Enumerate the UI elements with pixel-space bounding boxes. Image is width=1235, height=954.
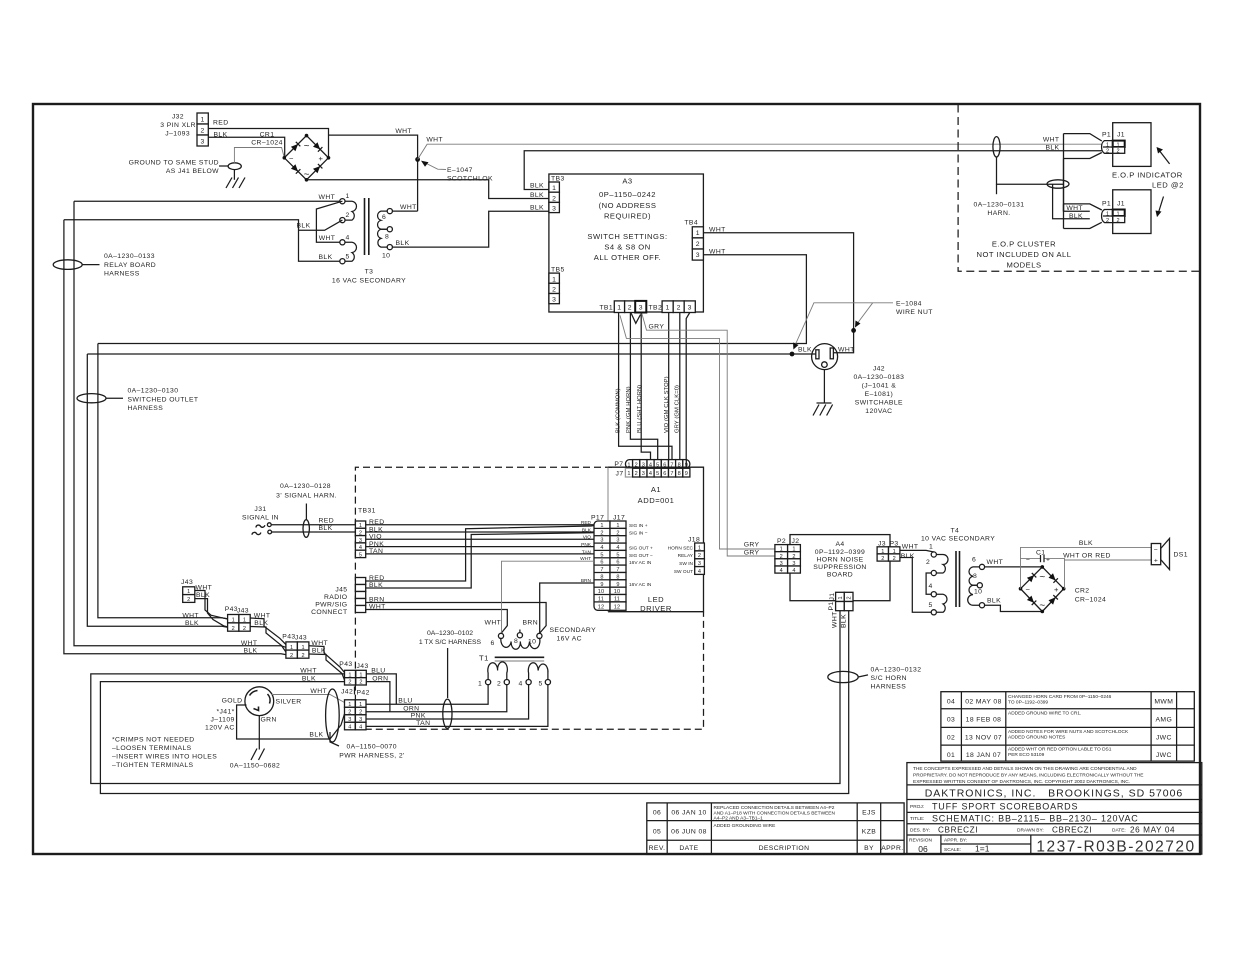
svg-text:2: 2: [359, 710, 362, 716]
svg-text:5: 5: [656, 471, 659, 477]
svg-text:8: 8: [385, 234, 389, 241]
svg-text:RED: RED: [213, 120, 229, 127]
svg-text:ADDED WHT OR RED OPTION LABLE: ADDED WHT OR RED OPTION LABLE TO DS1: [1008, 746, 1112, 752]
connector P1/J1 lower: [1102, 201, 1125, 224]
signal harness oval + label: [276, 483, 337, 537]
wire J41 GRN to splice: [258, 716, 260, 750]
svg-text:1: 1: [187, 589, 190, 595]
svg-text:1: 1: [359, 523, 362, 529]
svg-text:TB2: TB2: [649, 305, 663, 312]
svg-text:9: 9: [600, 582, 603, 588]
svg-text:4: 4: [346, 235, 350, 242]
wire TB31-2 BLK to P17-2: [366, 531, 594, 533]
svg-text:1: 1: [881, 549, 884, 555]
svg-text:1: 1: [838, 596, 844, 599]
left bus vertical BLK (switched outlet): [87, 354, 227, 627]
svg-text:120V AC: 120V AC: [205, 725, 235, 732]
svg-text:BLK: BLK: [841, 614, 848, 628]
svg-text:J42: J42: [341, 689, 353, 696]
terminal TB2: [649, 301, 696, 313]
svg-text:–LOOSEN TERMINALS: –LOOSEN TERMINALS: [112, 745, 192, 752]
connector J1/P1 bottom of A4: [828, 592, 853, 628]
svg-text:GRN: GRN: [261, 717, 277, 724]
connector P2/J2: [744, 538, 801, 574]
wire WHT to EOP (long gray): [418, 144, 1102, 159]
svg-text:E.O.P CLUSTER: E.O.P CLUSTER: [992, 240, 1056, 249]
svg-text:DATE: DATE: [679, 845, 698, 852]
svg-text:BLK: BLK: [185, 620, 199, 627]
svg-text:03: 03: [947, 717, 955, 724]
wire T3-2 tap: [299, 220, 343, 230]
svg-text:5: 5: [616, 552, 619, 558]
connector J45: [311, 575, 386, 616]
svg-text:4: 4: [616, 545, 619, 551]
svg-text:E–1047: E–1047: [447, 167, 473, 174]
svg-text:6: 6: [972, 557, 976, 564]
svg-text:A4: A4: [835, 541, 844, 548]
T4 primary windings: [936, 555, 948, 574]
svg-text:REVISION: REVISION: [909, 838, 932, 844]
EOP lower wires: [1053, 184, 1090, 218]
svg-text:1: 1: [617, 305, 621, 312]
svg-text:WHT: WHT: [300, 667, 317, 674]
wire J45-1 RED to P17-1: [366, 526, 594, 582]
EOP upper funnel: [1064, 134, 1102, 212]
svg-text:3: 3: [348, 717, 351, 723]
connector pair P43/J43 #3: [300, 661, 388, 686]
svg-text:BLK: BLK: [1045, 145, 1059, 152]
svg-text:CBRECZI: CBRECZI: [938, 826, 978, 835]
terminal TB5: [549, 267, 565, 304]
svg-text:2: 2: [616, 530, 619, 536]
svg-text:4: 4: [348, 725, 351, 731]
svg-text:8: 8: [616, 574, 619, 580]
board A4: [790, 535, 890, 601]
ground wire stud to CR1: [234, 148, 284, 163]
svg-text:12: 12: [598, 605, 604, 611]
terminal TB31: [355, 508, 384, 559]
svg-text:SWITCHED OUTLET: SWITCHED OUTLET: [128, 396, 199, 403]
svg-text:REV.: REV.: [649, 845, 666, 852]
svg-text:−: −: [1026, 585, 1031, 594]
svg-text:PNK: PNK: [411, 713, 426, 720]
svg-text:2: 2: [1117, 149, 1120, 155]
svg-text:GRY: GRY: [744, 542, 760, 549]
svg-text:BLU (SHT HORN): BLU (SHT HORN): [637, 385, 643, 433]
svg-text:GRY: GRY: [649, 324, 665, 331]
svg-text:3: 3: [688, 305, 692, 312]
svg-text:APPR.: APPR.: [881, 845, 903, 852]
svg-text:J32: J32: [172, 114, 184, 121]
svg-text:16V AC: 16V AC: [557, 636, 582, 643]
svg-text:SIG OUT −: SIG OUT −: [629, 553, 653, 559]
svg-text:11: 11: [598, 597, 604, 603]
svg-text:+: +: [1154, 558, 1158, 565]
svg-text:(J–1041 &: (J–1041 &: [862, 383, 897, 390]
svg-text:HORN NOISE: HORN NOISE: [816, 557, 863, 564]
svg-text:0A–1230–0128: 0A–1230–0128: [280, 483, 331, 490]
svg-text:6: 6: [600, 560, 603, 566]
svg-text:+: +: [319, 154, 324, 163]
svg-text:BLK: BLK: [1079, 540, 1093, 547]
svg-text:2: 2: [635, 471, 638, 477]
svg-text:WHT: WHT: [319, 194, 336, 201]
svg-text:HARNESS: HARNESS: [104, 271, 140, 278]
rotated wire color labels: [615, 376, 680, 433]
svg-text:WHT: WHT: [987, 559, 1004, 566]
wire bus WHT to T3-1: [74, 200, 340, 202]
left bus vertical WHT (T3): [74, 201, 286, 647]
svg-text:HARNESS: HARNESS: [128, 405, 164, 412]
svg-text:DES. BY:: DES. BY:: [910, 828, 930, 834]
T3 secondary terminals: [387, 209, 392, 214]
wire T1-2 ORN from P42-2: [366, 685, 507, 712]
svg-text:LED: LED: [648, 595, 664, 604]
T4 secondary terminals: [979, 564, 984, 569]
svg-text:WHT: WHT: [902, 544, 919, 551]
svg-text:2: 2: [497, 681, 501, 688]
svg-text:T4: T4: [951, 528, 960, 535]
svg-text:SIG OUT +: SIG OUT +: [629, 546, 653, 552]
terminal TB3: [530, 176, 565, 213]
connector J43 (single): [181, 579, 212, 603]
svg-text:9: 9: [685, 471, 688, 477]
svg-text:WHT: WHT: [400, 204, 417, 211]
svg-text:*CRIMPS NOT NEEDED: *CRIMPS NOT NEEDED: [112, 737, 195, 744]
wire TB31-3 VIO to P17-3: [366, 538, 594, 540]
svg-text:SCOTCHLOK: SCOTCHLOK: [447, 176, 493, 183]
svg-text:TB4: TB4: [684, 220, 698, 227]
label E-1047 SCOTCHLOK with arrow: [421, 161, 493, 183]
svg-text:1: 1: [616, 523, 619, 529]
svg-text:A4–P2 AND A3–TB1–1: A4–P2 AND A3–TB1–1: [714, 816, 764, 822]
svg-text:2: 2: [359, 531, 362, 537]
svg-text:AS J41 BELOW: AS J41 BELOW: [166, 168, 219, 175]
wire TB1-2 PNK (GM HORN) to P7-5: [630, 313, 657, 460]
svg-text:BLU: BLU: [371, 667, 385, 674]
wire P43#1 to P43#2 WHT: [250, 618, 286, 645]
svg-text:+: +: [1046, 557, 1050, 564]
wire J31 BLK to TB31-2: [272, 531, 356, 533]
svg-text:JWC: JWC: [1156, 735, 1172, 742]
wire P43#1 to P43#2 BLK: [250, 627, 286, 653]
svg-text:WHT: WHT: [182, 613, 199, 620]
svg-text:REPLACED CONNECTION DETAILS BE: REPLACED CONNECTION DETAILS BETWEEN A4–P…: [714, 805, 835, 811]
svg-text:CR–1024: CR–1024: [1075, 597, 1107, 604]
svg-text:06: 06: [918, 844, 928, 854]
svg-text:CR1: CR1: [260, 132, 275, 139]
svg-text:J43: J43: [295, 635, 307, 642]
svg-text:TITLE:: TITLE:: [910, 816, 924, 822]
svg-text:ADDED GROUND WIRE TO CR1.: ADDED GROUND WIRE TO CR1.: [1008, 711, 1081, 717]
svg-text:0A–1230–0132: 0A–1230–0132: [871, 667, 922, 674]
svg-text:*J41*: *J41*: [216, 709, 234, 716]
svg-text:18 FEB 08: 18 FEB 08: [966, 717, 1002, 724]
svg-text:2: 2: [893, 556, 896, 562]
svg-text:11: 11: [614, 597, 620, 603]
wire J43#3 ORN to T1 harness: [366, 682, 390, 712]
wire TB4-1 WHT to wire nut: [703, 233, 853, 353]
svg-text:0A–1230–0130: 0A–1230–0130: [128, 388, 179, 395]
wire T4-10 BLK to CR2 bottom: [985, 605, 1043, 611]
svg-text:BLK: BLK: [297, 222, 311, 229]
connector P17/J17: [580, 515, 653, 611]
svg-text:5: 5: [929, 602, 933, 609]
svg-text:2: 2: [348, 710, 351, 716]
svg-text:10: 10: [614, 589, 620, 595]
wire J43-1 to P43#1-1: [195, 591, 228, 619]
connector J18: [668, 537, 705, 575]
svg-text:WHT: WHT: [832, 611, 839, 628]
transformer T1: [478, 620, 596, 688]
connector P7/J7: [614, 460, 690, 478]
wire P43#2 to P43#3 WHT: [309, 646, 345, 673]
T1 core: [495, 656, 545, 658]
T4 core: [955, 551, 957, 607]
svg-text:BLK: BLK: [798, 347, 812, 354]
terminal TB4: [684, 220, 725, 261]
svg-text:BLK: BLK: [530, 205, 544, 212]
svg-text:A3: A3: [622, 177, 632, 186]
svg-text:+: +: [1054, 585, 1059, 594]
svg-text:DRAWN BY:: DRAWN BY:: [1017, 828, 1044, 834]
harness ellipse 0A-1230-0130: [77, 388, 198, 413]
jumper T4-2 to T4-4: [926, 573, 931, 594]
svg-text:DRIVER: DRIVER: [640, 604, 672, 613]
svg-text:APPR. BY:: APPR. BY:: [944, 838, 967, 844]
svg-text:6: 6: [616, 560, 619, 566]
svg-text:SW OUT: SW OUT: [674, 569, 693, 575]
label 0A-1150-0070 PWR HARNESS: [330, 732, 405, 760]
svg-text:4: 4: [359, 545, 362, 551]
svg-text:2: 2: [677, 305, 681, 312]
svg-text:BLK: BLK: [319, 254, 333, 261]
capacitor C1 across CR2: [1021, 550, 1065, 589]
svg-text:1: 1: [552, 276, 556, 283]
svg-text:ORN: ORN: [403, 705, 419, 712]
svg-text:~: ~: [1039, 572, 1045, 583]
svg-text:1: 1: [359, 672, 362, 678]
svg-text:10: 10: [382, 253, 390, 260]
wire J32-3 BLK to CR1 - corner: [208, 137, 284, 158]
svg-text:GOLD: GOLD: [222, 698, 243, 705]
svg-text:5: 5: [359, 552, 362, 558]
svg-text:10 VAC SECONDARY: 10 VAC SECONDARY: [921, 536, 995, 543]
svg-text:3: 3: [639, 305, 643, 312]
svg-text:−: −: [1026, 557, 1030, 564]
svg-text:GRY (GM CLK=0): GRY (GM CLK=0): [675, 385, 681, 433]
svg-text:J7: J7: [616, 471, 624, 478]
svg-text:MWM: MWM: [1154, 699, 1173, 706]
svg-text:T3: T3: [365, 269, 374, 276]
label 0A-1230-0102 harness: [419, 630, 482, 698]
svg-text:3: 3: [616, 538, 619, 544]
svg-text:1: 1: [780, 547, 783, 553]
svg-text:3: 3: [201, 138, 205, 145]
svg-text:3: 3: [698, 561, 701, 567]
wire T4-6 WHT to CR2 top: [985, 566, 1043, 568]
wire T1-1 BLU from P42-1: [366, 685, 488, 705]
svg-text:0P–1192–0399: 0P–1192–0399: [815, 549, 865, 556]
svg-text:J43: J43: [181, 579, 193, 586]
wire J43-2 to P43#1-2: [195, 599, 228, 627]
connector J32: [160, 113, 228, 146]
svg-text:BRN: BRN: [523, 620, 539, 627]
svg-text:2: 2: [290, 653, 293, 659]
T1 secondary terminals: [498, 633, 503, 638]
border frame: [33, 104, 1200, 854]
wire T3-1 jumper to T3-4: [316, 201, 342, 242]
svg-text:WHT: WHT: [310, 688, 327, 695]
svg-text:13 NOV 07: 13 NOV 07: [965, 735, 1002, 742]
ground below J42 plug: [813, 370, 833, 416]
svg-text:PROJ:: PROJ:: [910, 804, 924, 810]
svg-text:GRY: GRY: [744, 550, 760, 557]
svg-text:1: 1: [301, 645, 304, 651]
svg-text:1: 1: [478, 681, 482, 688]
svg-text:TB1: TB1: [599, 305, 613, 312]
svg-text:7: 7: [600, 567, 603, 573]
svg-text:E–1081): E–1081): [865, 391, 894, 398]
svg-text:1: 1: [600, 523, 603, 529]
harness oval at J42: [326, 689, 340, 742]
svg-text:E–1084: E–1084: [896, 301, 922, 308]
svg-text:J1: J1: [1117, 132, 1125, 139]
revision table right: [941, 692, 1194, 761]
svg-text:DS1: DS1: [1174, 552, 1188, 559]
svg-text:2: 2: [780, 554, 783, 560]
svg-text:8: 8: [514, 638, 518, 645]
terminal TB1: [599, 301, 646, 313]
harness ellipse 0A-1230-0133: [53, 253, 156, 278]
svg-text:2: 2: [698, 553, 701, 559]
left bus vertical BLK (T3): [64, 220, 286, 655]
svg-text:RADIO: RADIO: [324, 594, 348, 601]
T1 primary terminals: [486, 680, 491, 685]
svg-text:~: ~: [304, 141, 310, 152]
svg-text:1: 1: [290, 645, 293, 651]
EOP lower funnel: [1064, 204, 1102, 229]
svg-text:SECONDARY: SECONDARY: [550, 627, 597, 634]
svg-text:HARN.: HARN.: [987, 210, 1010, 217]
svg-text:10: 10: [974, 589, 982, 596]
svg-text:KZB: KZB: [862, 829, 876, 836]
svg-text:ALL OTHER OFF.: ALL OTHER OFF.: [594, 253, 661, 262]
svg-text:2: 2: [696, 241, 700, 248]
svg-text:2: 2: [881, 556, 884, 562]
left bus vertical WHT (switched outlet): [98, 344, 228, 620]
svg-text:5: 5: [539, 681, 543, 688]
wire TB1-1 BLK (COMMON) to P7-7: [619, 313, 672, 460]
wire T1-4 PNK from P42-3: [366, 685, 529, 719]
svg-text:J43: J43: [237, 608, 249, 615]
svg-text:2: 2: [1106, 149, 1109, 155]
svg-text:2: 2: [346, 212, 350, 219]
wire J41 BLK to J42-2: [237, 705, 345, 739]
S/C horn harness ellipse + label: [828, 667, 922, 691]
wire BLK long to J42 plug: [87, 353, 815, 355]
E.O.P cluster dashed boundary: [958, 105, 1199, 272]
svg-text:TO 0P–1192–0399: TO 0P–1192–0399: [1008, 699, 1048, 705]
svg-text:02 MAY 08: 02 MAY 08: [965, 699, 1002, 706]
T3 secondary windings: [378, 211, 388, 229]
svg-text:0A–1230–0131: 0A–1230–0131: [974, 202, 1025, 209]
wire J31 RED to TB31-1: [271, 524, 355, 526]
svg-text:1: 1: [893, 549, 896, 555]
svg-text:WHT OR RED: WHT OR RED: [1063, 553, 1111, 560]
svg-text:16 VAC SECONDARY: 16 VAC SECONDARY: [332, 278, 406, 285]
label E.O.P CLUSTER: [976, 240, 1071, 270]
svg-text:06 JUN 08: 06 JUN 08: [671, 829, 707, 836]
svg-text:1: 1: [792, 547, 795, 553]
junction dots at wire nuts: [790, 352, 795, 357]
svg-text:2: 2: [243, 626, 246, 632]
svg-text:3' SIGNAL HARN.: 3' SIGNAL HARN.: [276, 493, 337, 500]
svg-text:T1: T1: [479, 654, 489, 663]
svg-text:WHT: WHT: [395, 128, 412, 135]
svg-text:120VAC: 120VAC: [865, 408, 892, 415]
svg-text:BLK: BLK: [987, 598, 1001, 605]
svg-text:SWITCHABLE: SWITCHABLE: [855, 400, 903, 407]
svg-text:J31: J31: [254, 506, 266, 513]
notes crimps: [112, 737, 217, 770]
svg-text:06 JAN 10: 06 JAN 10: [671, 810, 706, 817]
svg-text:JWC: JWC: [1156, 752, 1172, 759]
svg-text:1: 1: [232, 618, 235, 624]
svg-text:26 MAY 04: 26 MAY 04: [1130, 826, 1175, 835]
wire TB4-3 WHT long to left bus: [98, 255, 807, 344]
svg-text:WHT: WHT: [1043, 137, 1060, 144]
svg-text:J–1093: J–1093: [165, 131, 190, 138]
wire TB2-3 to P7-9: [686, 313, 690, 460]
svg-text:4: 4: [929, 583, 933, 590]
plug J42 switchable outlet: [798, 344, 855, 370]
svg-text:AND A1–P18 WITH CONNECTION DET: AND A1–P18 WITH CONNECTION DETAILS BETWE…: [714, 810, 836, 816]
svg-text:DATE:: DATE:: [1112, 828, 1126, 834]
wire GRY thin TB1-3 to A4 P2-2: [642, 314, 775, 556]
svg-text:9: 9: [616, 582, 619, 588]
svg-text:16V AC IN: 16V AC IN: [629, 560, 652, 566]
svg-text:P43: P43: [282, 633, 295, 640]
svg-text:1 TX S/C HARNESS: 1 TX S/C HARNESS: [419, 639, 482, 646]
svg-text:BLK: BLK: [254, 620, 268, 627]
svg-text:WIRE NUT: WIRE NUT: [896, 309, 933, 316]
wire P43#2 to P43#3 BLK: [309, 654, 345, 680]
wire J43#3 BLU to T1 harness: [366, 674, 396, 704]
svg-text:02: 02: [947, 735, 955, 742]
EOP harness branch: [997, 157, 1064, 184]
T3 core: [364, 198, 366, 255]
T1 primary windings: [488, 662, 508, 679]
svg-text:4: 4: [780, 568, 783, 574]
svg-text:SCHEMATIC: BB–2115– BB–2130– 1: SCHEMATIC: BB–2115– BB–2130– 120VAC: [932, 814, 1139, 824]
svg-text:6: 6: [491, 640, 495, 647]
svg-text:3: 3: [552, 297, 556, 304]
svg-text:3: 3: [600, 538, 603, 544]
svg-text:WHT: WHT: [1066, 205, 1083, 212]
svg-text:BLK: BLK: [396, 240, 410, 247]
svg-text:PROPRIETARY. DO NOT REPRODUC: PROPRIETARY. DO NOT REPRODUCE BY ANY MEA…: [913, 772, 1143, 778]
svg-text:5: 5: [600, 552, 603, 558]
svg-text:WHT: WHT: [426, 137, 443, 144]
svg-text:06: 06: [653, 810, 661, 817]
svg-text:2: 2: [552, 195, 556, 202]
wire P3-1 WHT to T4-1: [900, 550, 934, 552]
svg-text:1: 1: [627, 471, 630, 477]
svg-text:05: 05: [653, 829, 661, 836]
svg-text:CBRECZI: CBRECZI: [1052, 826, 1092, 835]
wire CR1 bottom to TB3-2: [307, 180, 550, 199]
